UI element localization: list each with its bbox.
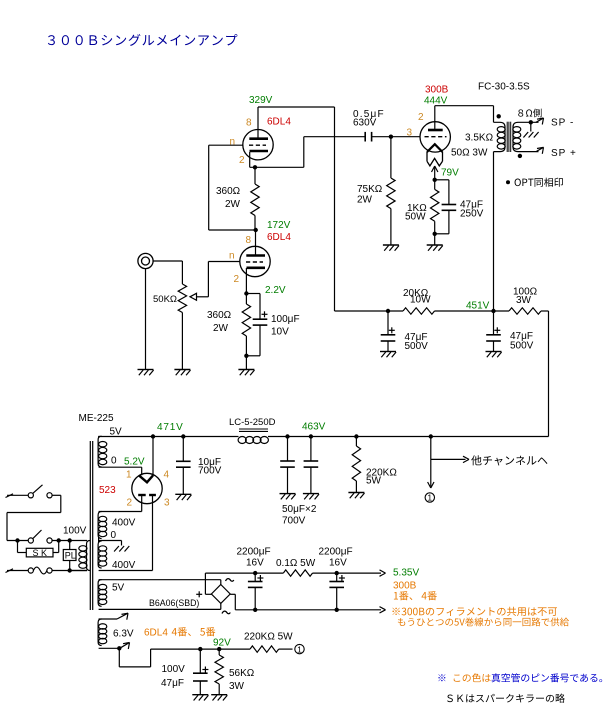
junction cap2200b bottom bbox=[335, 608, 339, 612]
svg-text:FC-30-3.5S: FC-30-3.5S bbox=[478, 82, 530, 93]
svg-text:6DL4: 6DL4 bbox=[144, 628, 168, 639]
svg-text:463V: 463V bbox=[302, 422, 326, 433]
arrow 6.3V a bbox=[117, 613, 128, 619]
wire 451V rail left bbox=[335, 310, 404, 312]
wire bridge + out bbox=[205, 593, 211, 595]
svg-text:3W: 3W bbox=[516, 295, 532, 306]
svg-text:2: 2 bbox=[127, 498, 133, 509]
ground 50uF a bbox=[280, 493, 296, 495]
svg-text:360Ω: 360Ω bbox=[216, 186, 241, 197]
node 1 marker bbox=[425, 493, 434, 502]
junction 172V node bbox=[254, 228, 258, 232]
svg-text:2.2V: 2.2V bbox=[265, 285, 286, 296]
potentiometer wiper arrow bbox=[190, 293, 197, 300]
label + bridge bbox=[196, 593, 202, 595]
filament 523 bbox=[139, 475, 153, 482]
svg-text:10W: 10W bbox=[410, 295, 431, 306]
junction PL bottom bbox=[68, 568, 72, 572]
svg-text:2W: 2W bbox=[213, 323, 229, 334]
svg-text:47μF: 47μF bbox=[161, 678, 184, 689]
label OPT phase mark bbox=[506, 180, 510, 184]
svg-text:630V: 630V bbox=[353, 118, 377, 129]
junction 1K bottom bbox=[433, 232, 437, 236]
triode 300B bbox=[420, 122, 450, 152]
wire B+ drop to 451V rail bbox=[334, 107, 336, 311]
switch lever 2 bbox=[33, 530, 42, 539]
junction tube2 cathode bbox=[244, 291, 248, 295]
svg-text:451V: 451V bbox=[466, 301, 490, 312]
wire +5V rail a bbox=[205, 572, 283, 574]
523 plates bbox=[138, 494, 146, 496]
fuse contact b bbox=[47, 568, 52, 573]
svg-text:2W: 2W bbox=[225, 199, 241, 210]
arrow + out bbox=[380, 570, 386, 573]
resistor 360ohm upper bbox=[254, 167, 256, 184]
wire left plate to 400V top bbox=[141, 495, 143, 512]
triode U2 6DL4 lower bbox=[240, 246, 270, 276]
wire rail down to 463V bbox=[548, 311, 550, 437]
resistor 360ohm lower bbox=[245, 294, 247, 305]
junction 50uF b bbox=[309, 434, 313, 438]
ground pot bbox=[174, 369, 190, 371]
resistor 1K 50W bbox=[434, 180, 436, 190]
svg-text:SP +: SP + bbox=[551, 148, 577, 159]
svg-text:100V: 100V bbox=[162, 664, 186, 675]
ground 10uF bbox=[175, 493, 191, 495]
wire 451V rail mid bbox=[435, 310, 510, 312]
svg-text:16V: 16V bbox=[329, 558, 347, 569]
resistor 220K 5W to B+ bbox=[250, 646, 279, 652]
note pin color bbox=[438, 674, 445, 681]
junction cap47b bbox=[491, 309, 495, 313]
label ac bottom bbox=[222, 611, 230, 614]
svg-text:1: 1 bbox=[427, 493, 432, 503]
ground 75K bbox=[383, 244, 399, 246]
svg-text:LC-5-250D: LC-5-250D bbox=[229, 417, 276, 428]
svg-text:329V: 329V bbox=[249, 95, 273, 106]
node 1 marker b bbox=[295, 644, 304, 653]
switch contact 1a bbox=[28, 493, 33, 498]
svg-text:172V: 172V bbox=[267, 220, 291, 231]
svg-text:75KΩ: 75KΩ bbox=[357, 184, 383, 195]
svg-text:50μF×2: 50μF×2 bbox=[282, 504, 317, 515]
svg-text:n: n bbox=[229, 251, 235, 262]
wire tube2 cathode down bbox=[245, 268, 247, 294]
wire coupling riser bbox=[303, 137, 305, 168]
arrow SP+ bbox=[536, 147, 544, 151]
svg-text:50Ω 3W: 50Ω 3W bbox=[451, 148, 488, 159]
wire pot top bbox=[181, 261, 183, 284]
label to other channel bbox=[471, 455, 481, 465]
capacitor 47uF 500V b bbox=[493, 311, 495, 335]
center tap ground bbox=[98, 538, 100, 543]
OPT secondary winding bbox=[513, 122, 539, 151]
switch contact 2b bbox=[47, 538, 52, 543]
arrow 6.3V b bbox=[121, 643, 130, 648]
capacitor 47uF 100V bias bbox=[199, 649, 201, 673]
svg-text:92V: 92V bbox=[213, 638, 231, 649]
wire AC line3 bbox=[7, 570, 28, 572]
potentiometer 50K bbox=[178, 284, 186, 313]
label pins 1,4 bbox=[394, 592, 398, 599]
junction PL top bbox=[68, 538, 72, 542]
junction SK right bbox=[57, 538, 61, 542]
svg-text:ME-225: ME-225 bbox=[79, 413, 114, 424]
ground jack bbox=[138, 369, 154, 371]
svg-text:8: 8 bbox=[246, 118, 252, 129]
wire AC line1 bbox=[7, 494, 28, 496]
wire +5V rail b bbox=[313, 572, 382, 574]
svg-text:2W: 2W bbox=[357, 195, 373, 206]
wire to other channel bbox=[430, 437, 432, 460]
wire 0 tap to pin1 bbox=[99, 466, 142, 468]
rectifier 523 bbox=[132, 473, 162, 503]
pilot lamp PL bbox=[69, 541, 71, 550]
switch lever 1 bbox=[33, 485, 43, 494]
wire 463V rail bbox=[268, 436, 549, 438]
svg-text:56KΩ: 56KΩ bbox=[229, 668, 255, 679]
input jack bbox=[138, 253, 153, 268]
wire tube1 grid left bbox=[209, 144, 243, 146]
svg-text:5V: 5V bbox=[112, 583, 125, 594]
junction other channel bbox=[429, 434, 433, 438]
junction cathode RC bottom bbox=[244, 354, 248, 358]
svg-text:500V: 500V bbox=[405, 341, 429, 352]
wire rail right bbox=[541, 310, 549, 312]
svg-text:471V: 471V bbox=[157, 422, 184, 433]
junction cap47a bbox=[386, 309, 390, 313]
svg-text:SP -: SP - bbox=[551, 118, 574, 129]
ME-225 core bbox=[89, 441, 91, 610]
resistor 100ohm 3W bbox=[509, 308, 541, 314]
winding 400V lower bbox=[98, 541, 102, 568]
wire tube1 plate lead up bbox=[257, 107, 259, 139]
svg-text:5W: 5W bbox=[366, 476, 382, 487]
junction 47uF bias bbox=[198, 647, 202, 651]
ground secondary bbox=[523, 132, 528, 138]
svg-text:500V: 500V bbox=[510, 341, 534, 352]
svg-text:700V: 700V bbox=[282, 516, 306, 527]
phase dot secondary bbox=[518, 154, 522, 158]
svg-text:6.3V: 6.3V bbox=[113, 629, 134, 640]
title 300B single main amp bbox=[48, 35, 55, 45]
wire 329V top run bbox=[258, 106, 335, 108]
switch contact 2a bbox=[28, 538, 33, 543]
svg-text:400V: 400V bbox=[112, 518, 136, 529]
wire grid down to 172V node bbox=[208, 145, 210, 230]
svg-text:6DL4: 6DL4 bbox=[267, 117, 291, 128]
note SK bbox=[447, 695, 453, 703]
ground bleeder bbox=[348, 492, 364, 494]
junction 10uF bbox=[181, 434, 185, 438]
switch contact 1b bbox=[47, 493, 52, 498]
svg-text:50W: 50W bbox=[405, 212, 426, 223]
ground 1K bbox=[427, 244, 443, 246]
wire tube1 cathode down bbox=[249, 152, 251, 167]
junction filament bias bbox=[433, 178, 437, 182]
wire jack to pot bbox=[153, 260, 182, 262]
ground cap47b bbox=[486, 351, 502, 353]
wire 471V rail bbox=[99, 436, 237, 438]
capacitor 0.5uF 630V coupling bbox=[364, 132, 366, 142]
svg-text:700V: 700V bbox=[198, 466, 222, 477]
ground 56K bbox=[211, 694, 227, 696]
ground cap47a bbox=[380, 351, 396, 353]
capacitor 50uF b bbox=[310, 437, 312, 462]
svg-text:PL: PL bbox=[65, 550, 76, 560]
svg-text:2200μF: 2200μF bbox=[237, 547, 271, 558]
resistor 20K 10W bbox=[403, 308, 435, 314]
winding 400V upper bbox=[99, 511, 142, 513]
wire to node 1 bbox=[430, 459, 432, 486]
junction cap2200a bottom bbox=[253, 608, 257, 612]
junction grid node bbox=[389, 135, 393, 139]
resistor 75K 2W grid leak bbox=[390, 137, 392, 178]
wire tube2 plate lead bbox=[255, 230, 257, 255]
junction SK left bbox=[15, 538, 19, 542]
capacitor 10uF 700V bbox=[182, 437, 184, 462]
wire to coupling cap bbox=[304, 136, 365, 138]
wire cathode to coupling bbox=[250, 166, 304, 168]
wire jack sleeve down bbox=[145, 269, 147, 370]
svg-text:5V: 5V bbox=[110, 427, 123, 438]
wire bridge - out bbox=[230, 593, 235, 595]
ground bias cap bbox=[192, 694, 208, 696]
ground center tap bbox=[114, 546, 119, 552]
svg-text:16V: 16V bbox=[246, 558, 264, 569]
svg-text:4: 4 bbox=[164, 470, 170, 481]
arrow SP- bbox=[536, 118, 544, 122]
capacitor 50uF a bbox=[287, 437, 289, 462]
svg-text:0: 0 bbox=[111, 456, 117, 467]
wire 5V fil top bbox=[99, 579, 221, 581]
wire cap to 300B grid bbox=[372, 136, 421, 138]
wire AC line2 bbox=[7, 540, 28, 542]
svg-text:50KΩ: 50KΩ bbox=[153, 294, 177, 305]
wire 6.3V return jog bbox=[118, 648, 120, 667]
svg-text:5.2V: 5.2V bbox=[124, 457, 145, 468]
junction 56K bbox=[217, 647, 221, 651]
wire AC to bridge top bbox=[220, 580, 222, 585]
resistor 220K 5W bleeder bbox=[355, 437, 357, 447]
junction cap2200a top bbox=[253, 571, 257, 575]
arrow - out bbox=[380, 607, 386, 610]
svg-text:444V: 444V bbox=[424, 96, 448, 107]
resistor 0.1ohm 5W bbox=[283, 570, 312, 576]
capacitor 47uF 250V bbox=[435, 179, 449, 181]
svg-text:0.1Ω 5W: 0.1Ω 5W bbox=[276, 558, 316, 569]
OPT core bbox=[506, 122, 508, 152]
junction 6.3V return bbox=[117, 646, 121, 650]
ground 50uF b bbox=[303, 493, 319, 495]
junction tube1 cathode bbox=[253, 165, 257, 169]
svg-text:400V: 400V bbox=[112, 560, 136, 571]
svg-text:3W: 3W bbox=[229, 681, 245, 692]
wire tube2 grid bbox=[208, 261, 240, 263]
svg-text:523: 523 bbox=[99, 485, 116, 496]
svg-text:360Ω: 360Ω bbox=[207, 310, 232, 321]
AC plug tick top bbox=[6, 494, 14, 498]
svg-text:8: 8 bbox=[246, 235, 252, 246]
junction pin4 drop bbox=[151, 434, 155, 438]
svg-text:5.35V: 5.35V bbox=[393, 568, 419, 579]
wire -5V rail bbox=[235, 609, 381, 611]
wire right plate to 400V bottom bbox=[152, 495, 154, 571]
wire 300B plate up bbox=[434, 106, 436, 130]
bridge rectifier B6A06 bbox=[211, 585, 230, 604]
svg-text:2200μF: 2200μF bbox=[319, 547, 353, 558]
wire pin4 drop bbox=[152, 437, 154, 477]
wire plate to OPT bbox=[435, 105, 494, 107]
OPT primary winding bbox=[494, 122, 506, 151]
svg-text:300B: 300B bbox=[393, 581, 417, 592]
capacitor 47uF 500V a bbox=[387, 311, 389, 335]
svg-text:10V: 10V bbox=[271, 327, 289, 338]
note same circuit supply bbox=[398, 618, 405, 626]
filament return arrow bbox=[434, 167, 436, 180]
wire 92V node bbox=[151, 648, 250, 650]
svg-text:6DL4: 6DL4 bbox=[267, 232, 291, 243]
svg-text:1: 1 bbox=[297, 644, 302, 654]
junction bleeder bbox=[354, 434, 358, 438]
300B filament bbox=[427, 144, 443, 152]
wire to 172V node bbox=[209, 229, 256, 231]
fuse bbox=[33, 567, 47, 574]
svg-text:300B: 300B bbox=[425, 85, 449, 96]
svg-text:2: 2 bbox=[418, 112, 424, 123]
svg-text:3: 3 bbox=[407, 128, 413, 139]
svg-text:2: 2 bbox=[234, 274, 240, 285]
wire pot bottom to gnd bbox=[181, 313, 183, 370]
svg-text:1: 1 bbox=[126, 470, 132, 481]
svg-text:2: 2 bbox=[239, 155, 245, 166]
svg-text:3: 3 bbox=[164, 498, 170, 509]
svg-text:250V: 250V bbox=[460, 209, 484, 220]
svg-text:S K: S K bbox=[33, 548, 48, 558]
label pins 4,5 bbox=[172, 628, 177, 635]
svg-text:n: n bbox=[230, 137, 236, 148]
fuse contact a bbox=[28, 568, 33, 573]
svg-text:3.5KΩ: 3.5KΩ bbox=[465, 133, 494, 144]
capacitor 100uF 10V bbox=[246, 293, 260, 295]
wire secondary gnd bbox=[530, 122, 532, 131]
wire AC to bridge bottom bbox=[220, 603, 222, 609]
svg-text:79V: 79V bbox=[441, 168, 459, 179]
winding 6.3V bbox=[99, 618, 117, 620]
svg-text:220KΩ 5W: 220KΩ 5W bbox=[244, 632, 293, 643]
junction secondary gnd tap bbox=[529, 120, 533, 124]
svg-text:0: 0 bbox=[111, 530, 117, 541]
resistor 56K 3W bbox=[218, 649, 220, 655]
wire 5V fil bottom bbox=[99, 608, 221, 610]
junction cap2200b top bbox=[335, 571, 339, 575]
AC plug tick bottom bbox=[6, 569, 14, 573]
junction 50uF a bbox=[285, 434, 289, 438]
wire OPT primary bottom to rail bbox=[493, 152, 495, 311]
label 8ohm side bbox=[518, 109, 523, 116]
triode U1 6DL4 upper bbox=[243, 130, 273, 160]
svg-text:B6A06(SBD): B6A06(SBD) bbox=[149, 598, 199, 608]
ground cathode bbox=[238, 369, 254, 371]
label ac top bbox=[226, 579, 234, 582]
note filament sharing bbox=[392, 608, 399, 615]
svg-text:100μF: 100μF bbox=[271, 314, 300, 325]
wire OPT primary top bbox=[493, 106, 495, 123]
svg-text:100V: 100V bbox=[63, 526, 87, 537]
phase dot primary bbox=[497, 114, 501, 118]
spark killer SK bbox=[17, 541, 19, 553]
